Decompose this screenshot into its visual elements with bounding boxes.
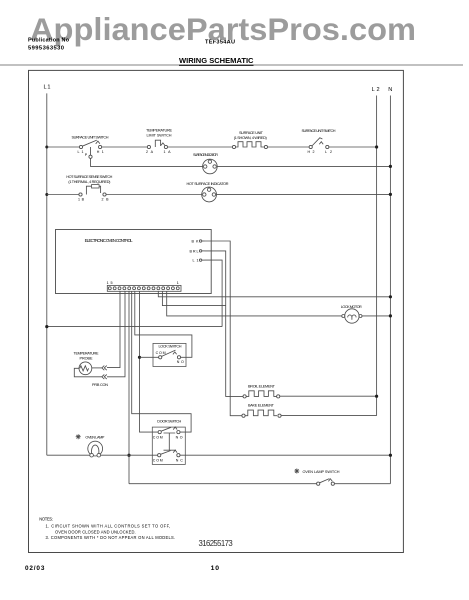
svg-text:5995363530: 5995363530 <box>28 46 64 52</box>
wire to surface unit switch right <box>268 146 310 148</box>
svg-text:(1 SHOWN, 4 WIRED): (1 SHOWN, 4 WIRED) <box>234 136 268 140</box>
wire to surface unit element <box>168 146 233 148</box>
svg-text:LIMIT SWITCH: LIMIT SWITCH <box>147 133 172 137</box>
wire probe right to connector1 <box>92 367 102 369</box>
svg-text:BROIL ELEMENT: BROIL ELEMENT <box>248 384 276 388</box>
svg-text:PRB CON: PRB CON <box>92 383 108 387</box>
L2 bus wire <box>376 96 378 416</box>
svg-text:SURFACE UNIT: SURFACE UNIT <box>239 131 264 135</box>
junction L1 row1 <box>45 146 48 149</box>
wire lock COM feed <box>140 356 159 358</box>
wire strip to door switch NO <box>132 291 191 432</box>
svg-text:10: 10 <box>211 565 220 572</box>
temperature probe RT1 <box>74 351 99 374</box>
svg-text:H2: H2 <box>308 150 315 154</box>
svg-text:SURFACE UNIT SWITCH: SURFACE UNIT SWITCH <box>302 129 336 133</box>
svg-text:L2: L2 <box>325 150 332 154</box>
svg-text:BRL: BRL <box>190 249 199 253</box>
svg-text:NO: NO <box>176 435 183 439</box>
wire strip to lock switch NO <box>135 291 192 357</box>
svg-text:1. CIRCUIT SHOWN WITH ALL CON: 1. CIRCUIT SHOWN WITH ALL CONTROLS SET T… <box>46 523 171 528</box>
wire to L2 bus <box>329 146 377 148</box>
svg-text:BAKE ELEMENT: BAKE ELEMENT <box>248 404 275 408</box>
wire L1 bus to EOC L1 <box>47 326 222 328</box>
header rule <box>0 64 463 66</box>
svg-text:L1: L1 <box>78 150 84 154</box>
svg-text:H1: H1 <box>97 150 104 154</box>
EOC terminal BRL <box>190 249 205 253</box>
wire to temp limit switch <box>102 146 148 148</box>
schematic border frame <box>29 70 404 552</box>
door switch lower pole <box>153 450 183 462</box>
wire probe left loop to connector2 <box>74 368 101 377</box>
svg-text:316255173: 316255173 <box>199 539 233 548</box>
wire bake to L2 end <box>281 415 377 417</box>
wire to hot surface indicator <box>106 194 202 196</box>
lock switch box <box>153 343 186 366</box>
svg-text:LOCK MOTOR: LOCK MOTOR <box>341 305 362 309</box>
wire lamp switch to N corner <box>334 483 390 485</box>
svg-text:HOT SURFACE SENSE SWITCH: HOT SURFACE SENSE SWITCH <box>66 175 112 179</box>
svg-text:ELECTRONIC OVEN CONTROL: ELECTRONIC OVEN CONTROL <box>85 238 134 243</box>
wire P tap down to row2 <box>91 158 203 166</box>
junction row a N <box>389 295 392 298</box>
wire BRL to broil element <box>205 251 244 397</box>
svg-text:NC: NC <box>176 458 183 462</box>
svg-text:L1: L1 <box>193 259 199 263</box>
svg-text:PROBE: PROBE <box>80 356 93 360</box>
svg-text:SURFACE UNIT SWITCH: SURFACE UNIT SWITCH <box>72 135 109 139</box>
svg-text:(1 THERMAL, 4 REQUIRED): (1 THERMAL, 4 REQUIRED) <box>68 180 111 184</box>
probe connector PRB CON <box>92 366 108 387</box>
junction lock COM feed <box>138 356 141 359</box>
temperature limit switch <box>146 128 172 153</box>
junction L1 row3 <box>45 193 48 196</box>
bake element <box>242 404 281 418</box>
junction L1 bus EOC feed <box>45 325 48 328</box>
wire broil to L2 <box>280 395 377 397</box>
wire strip to lock motor row <box>167 291 343 316</box>
svg-text:1: 1 <box>177 281 179 285</box>
EOC terminal L1 <box>193 259 205 263</box>
svg-text:NOTES:: NOTES: <box>39 517 53 522</box>
svg-text:3. COMPONENTS WITH * DO NOT: 3. COMPONENTS WITH * DO NOT APPEAR ON AL… <box>46 535 176 540</box>
svg-text:COM: COM <box>153 458 163 462</box>
svg-text:Publication No: Publication No <box>28 38 70 44</box>
door switch box <box>152 420 185 465</box>
electronic oven control box U1 <box>56 230 212 294</box>
wire strip to broil vertical <box>162 291 225 305</box>
EOC terminal BK <box>192 240 205 244</box>
svg-text:WIRING SCHEMATIC: WIRING SCHEMATIC <box>179 56 254 65</box>
svg-text:OVEN LAMP SWITCH: OVEN LAMP SWITCH <box>303 470 340 474</box>
surface indicator lamp <box>193 153 218 174</box>
svg-text:N: N <box>388 87 392 93</box>
lock motor M1 <box>341 305 362 323</box>
surface unit element <box>232 131 267 148</box>
svg-text:TEMPERATURE: TEMPERATURE <box>146 128 172 132</box>
wire strip to N row a <box>158 291 390 297</box>
junction row2 N <box>389 165 392 168</box>
svg-text:L2: L2 <box>372 87 380 93</box>
wire strip to lamp row and lamp switch row <box>128 291 130 483</box>
svg-text:COM: COM <box>156 351 166 355</box>
door switch link bar <box>164 433 177 450</box>
wire L1 bus corner to oven lamp <box>47 454 90 456</box>
N bus wire <box>389 96 391 484</box>
wire lock motor to N <box>362 315 390 317</box>
svg-text:DOOR SWITCH: DOOR SWITCH <box>157 420 181 424</box>
svg-text:NO: NO <box>177 360 184 364</box>
broil element <box>243 384 280 398</box>
oven lamp <box>76 434 105 457</box>
svg-text:TEMPERATURE: TEMPERATURE <box>74 351 99 355</box>
wire oven lamp to door switch COM <box>101 454 158 456</box>
wire strip to probe connector 1 <box>107 291 120 367</box>
L1 bus wire <box>46 93 48 455</box>
publication number text <box>28 38 70 52</box>
svg-text:2B: 2B <box>102 197 110 201</box>
EOC terminal strip <box>107 281 181 291</box>
svg-text:COM: COM <box>153 435 163 439</box>
svg-text:OVEN LAMP: OVEN LAMP <box>85 436 104 440</box>
wire L1 terminal of EOC down <box>205 260 223 327</box>
junction row1 L2 <box>375 145 378 148</box>
surface unit switch SW1 <box>72 135 109 158</box>
wire L1 to hot surface sense switch <box>47 194 79 196</box>
wire lamp switch row left <box>129 483 317 485</box>
svg-text:15: 15 <box>107 281 113 285</box>
svg-text:AppliancePartsPros.com: AppliancePartsPros.com <box>30 11 416 47</box>
svg-text:02/03: 02/03 <box>25 565 45 572</box>
wire strip to probe connector 2 <box>107 291 125 377</box>
wire hot surface indicator to N <box>217 193 391 195</box>
strip terminals 15..1 <box>108 287 179 290</box>
junction lamp row <box>127 454 130 457</box>
svg-text:1B: 1B <box>78 197 85 201</box>
hot surface indicator lamp <box>187 182 229 202</box>
wire L1 to surface unit switch <box>47 146 80 148</box>
wire door NC to N <box>180 454 390 456</box>
wire surface indicator to N <box>217 165 390 167</box>
junction lamp row N <box>389 454 392 457</box>
svg-text:HOT SURFACE INDICATOR: HOT SURFACE INDICATOR <box>187 182 229 186</box>
wire strip to lock COM and door COM <box>140 291 159 432</box>
junction lock motor N <box>389 314 392 317</box>
oven lamp switch <box>294 469 339 486</box>
svg-text:L1: L1 <box>44 85 51 91</box>
svg-text:2A: 2A <box>146 150 154 154</box>
hot surface sense switch <box>66 175 112 202</box>
svg-text:P: P <box>85 153 88 157</box>
wire BK to bake element <box>205 241 242 416</box>
svg-text:SURFACE INDICATOR: SURFACE INDICATOR <box>193 153 218 157</box>
door switch upper pole <box>153 427 183 439</box>
svg-text:LOCK SWITCH: LOCK SWITCH <box>159 344 182 348</box>
surface unit switch SW2 <box>302 129 336 154</box>
svg-text:BK: BK <box>192 240 200 244</box>
svg-text:1A: 1A <box>164 150 172 154</box>
svg-text:OVEN DOOR CLOSED AND UNLOCKED.: OVEN DOOR CLOSED AND UNLOCKED. <box>55 529 136 534</box>
junction row3 N <box>389 193 392 196</box>
SECTION:NOTES <box>39 517 175 541</box>
junction broil L2 <box>375 395 378 398</box>
